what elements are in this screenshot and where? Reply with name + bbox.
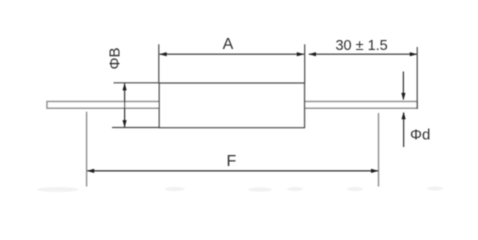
dimension Φd: upper arrow pointing down to lead — [401, 72, 405, 101]
left lead — [47, 102, 159, 109]
dimension Φd: lower arrow pointing up to lead — [402, 112, 406, 147]
faint artifact smudges — [37, 187, 443, 192]
dimension 30±1.5: right extension line — [416, 47, 418, 109]
label A — [223, 36, 234, 53]
dimension 30±1.5: dimension line with outward arrows — [309, 52, 418, 56]
dimension ΦB: top tick — [114, 82, 160, 84]
dimension ΦB: bottom tick — [112, 127, 159, 129]
label ΦB (rotated 90° CCW) — [106, 48, 123, 70]
svg-text:30 ± 1.5: 30 ± 1.5 — [335, 38, 387, 54]
dimension F: left extension line — [86, 112, 88, 187]
dimension F: dimension line with outward arrows — [87, 169, 379, 173]
dimension A: left extension line — [158, 44, 160, 83]
label F — [227, 153, 237, 170]
label Φd — [410, 127, 430, 144]
svg-text:A: A — [223, 36, 234, 53]
component body — [159, 83, 304, 128]
right lead — [305, 102, 418, 109]
dimension F: right extension line — [378, 113, 380, 187]
svg-text:ΦB: ΦB — [106, 48, 123, 70]
label 30 ± 1.5 — [335, 38, 387, 54]
dimension A: dimension line with outward arrows — [159, 52, 304, 56]
dimension A: right extension line — [304, 44, 306, 83]
dimension ΦB: vertical dimension line with outward arrows — [123, 83, 127, 128]
svg-text:Φd: Φd — [410, 127, 430, 144]
svg-text:F: F — [227, 153, 237, 170]
